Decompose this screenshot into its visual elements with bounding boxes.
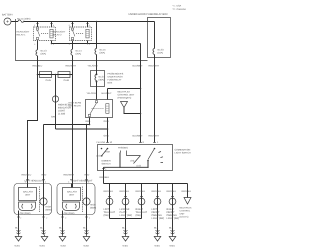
svg-text:LICENSE: LICENSE: [120, 208, 130, 211]
svg-text:RED/BLK: RED/BLK: [120, 190, 130, 193]
svg-text:2: 2: [89, 217, 90, 220]
svg-text:FRONT: FRONT: [152, 211, 161, 214]
svg-text:No.13: No.13: [41, 50, 48, 53]
svg-text:(Driver's): (Driver's): [180, 216, 189, 219]
svg-text:COMBINATION: COMBINATION: [175, 149, 191, 152]
svg-text:HIGH: HIGH: [46, 206, 52, 209]
svg-text:MULTIPLEX: MULTIPLEX: [180, 207, 193, 210]
svg-text:PASSING: PASSING: [118, 147, 128, 150]
svg-text:LIGHT (5W): LIGHT (5W): [152, 217, 165, 220]
svg-text:RED/BLU: RED/BLU: [33, 65, 43, 68]
svg-text:RED/BLK: RED/BLK: [136, 190, 146, 193]
svg-text:PASSENGER'S: PASSENGER'S: [108, 73, 124, 76]
svg-text:2: 2: [88, 181, 89, 184]
svg-text:BLK: BLK: [83, 227, 88, 230]
svg-text:*1 : USA: *1 : USA: [173, 5, 182, 8]
svg-text:(HI): (HI): [131, 160, 135, 163]
svg-text:PARKING: PARKING: [167, 214, 177, 217]
svg-text:RELAY 1: RELAY 1: [17, 34, 27, 37]
svg-text:C445: C445: [46, 79, 52, 82]
svg-text:No.15: No.15: [100, 49, 107, 52]
svg-text:(LOW): (LOW): [97, 155, 104, 158]
svg-text:RED/BLK: RED/BLK: [167, 190, 177, 193]
svg-text:SWITCH: SWITCH: [102, 163, 111, 166]
svg-text:C446: C446: [64, 79, 70, 82]
svg-text:BLK: BLK: [122, 227, 127, 230]
svg-text:3: 3: [89, 24, 90, 27]
svg-text:BATTERY: BATTERY: [2, 14, 13, 17]
svg-text:5: 5: [69, 24, 70, 27]
svg-text:RED: RED: [86, 120, 91, 123]
svg-text:LEFT: LEFT: [104, 208, 110, 211]
svg-text:UNDER-DASH: UNDER-DASH: [108, 76, 123, 79]
svg-text:BLU/WHT: BLU/WHT: [133, 135, 144, 138]
svg-text:BLK: BLK: [169, 227, 174, 230]
svg-text:MULTIPLEX: MULTIPLEX: [118, 91, 131, 94]
svg-text:(Passenger's): (Passenger's): [118, 97, 132, 100]
svg-text:LOW (35W): LOW (35W): [63, 212, 75, 215]
svg-text:RIGHT: RIGHT: [136, 208, 144, 211]
svg-text:UNDER-HOOD FUSE/RELAY BOX: UNDER-HOOD FUSE/RELAY BOX: [129, 13, 169, 16]
svg-text:No.33: No.33: [158, 49, 165, 52]
svg-text:1: 1: [53, 43, 54, 46]
svg-text:RED: RED: [85, 174, 90, 177]
svg-text:(20A): (20A): [76, 53, 82, 56]
svg-text:BLK: BLK: [15, 227, 20, 230]
svg-text:RED/BLK: RED/BLK: [100, 176, 110, 179]
svg-text:UNIT: UNIT: [180, 213, 186, 216]
svg-text:BLK: BLK: [59, 227, 64, 230]
svg-text:BOX: BOX: [108, 82, 113, 85]
svg-text:RIGHT HEADLIGHT: RIGHT HEADLIGHT: [72, 180, 93, 183]
svg-text:5: 5: [34, 24, 35, 27]
svg-text:LIGHT (5W): LIGHT (5W): [167, 217, 180, 220]
svg-text:1: 1: [89, 43, 90, 46]
svg-text:2: 2: [45, 181, 46, 184]
svg-text:2: 2: [20, 217, 21, 220]
svg-text:HIGH: HIGH: [105, 151, 111, 154]
svg-text:(60W): (60W): [46, 209, 52, 212]
svg-text:FRONT: FRONT: [167, 211, 176, 214]
svg-text:For USA: For USA: [97, 141, 106, 144]
svg-text:No.14: No.14: [76, 50, 83, 53]
svg-text:GRN: GRN: [104, 120, 109, 123]
svg-text:(10A): (10A): [158, 52, 164, 55]
svg-text:LIGHT (5W): LIGHT (5W): [120, 214, 133, 217]
svg-text:CONTROL UNIT: CONTROL UNIT: [118, 94, 135, 97]
svg-text:(5W): (5W): [136, 214, 141, 217]
svg-text:GRN: GRN: [104, 135, 109, 138]
svg-text:(30A): (30A): [99, 79, 105, 82]
svg-text:RED/BLU: RED/BLU: [22, 174, 32, 177]
svg-text:(60W): (60W): [90, 207, 96, 210]
svg-text:TAILLIGHT: TAILLIGHT: [104, 211, 116, 214]
svg-text:LIGHT SWITCH: LIGHT SWITCH: [175, 152, 191, 155]
svg-text:2: 2: [46, 217, 47, 220]
svg-text:RED/WHT: RED/WHT: [149, 135, 160, 138]
svg-text:LEFT: LEFT: [152, 208, 158, 211]
svg-text:BALLAST: BALLAST: [23, 191, 34, 194]
svg-text:TAILLIGHT: TAILLIGHT: [136, 211, 148, 214]
svg-text:3: 3: [53, 24, 54, 27]
svg-text:RED/BLK: RED/BLK: [182, 190, 192, 193]
svg-text:CONTROL: CONTROL: [180, 210, 191, 213]
svg-text:DIMMER: DIMMER: [102, 160, 111, 163]
svg-text:(20A): (20A): [41, 53, 47, 56]
svg-text:BALLAST: BALLAST: [67, 191, 78, 194]
svg-text:BLU/WHT: BLU/WHT: [133, 65, 144, 68]
svg-text:PARKING: PARKING: [152, 214, 162, 217]
svg-text:2: 2: [65, 217, 66, 220]
svg-text:RELAY 2: RELAY 2: [53, 34, 63, 37]
svg-text:PLATE: PLATE: [120, 211, 128, 214]
svg-text:RED/WHT: RED/WHT: [66, 65, 77, 68]
svg-text:(5W): (5W): [104, 214, 109, 217]
svg-text:No.24: No.24: [99, 76, 106, 79]
svg-text:RED/WHT: RED/WHT: [149, 65, 160, 68]
svg-text:UNIT: UNIT: [69, 194, 75, 197]
svg-text:4: 4: [68, 181, 69, 184]
svg-text:RED/WHT: RED/WHT: [64, 174, 75, 177]
svg-text:RIGHT: RIGHT: [167, 208, 175, 211]
svg-text:GRN: GRN: [51, 116, 56, 119]
svg-text:BLK: BLK: [154, 227, 159, 230]
svg-text:(20A): (20A): [100, 52, 106, 55]
svg-text:FUSE/RELAY: FUSE/RELAY: [108, 79, 122, 82]
svg-text:4: 4: [25, 181, 26, 184]
svg-text:5: 5: [105, 168, 106, 171]
svg-text:YEL/GRN: YEL/GRN: [88, 65, 98, 68]
svg-text:HEADLIGHT: HEADLIGHT: [53, 31, 67, 34]
svg-text:No.41 (100A): No.41 (100A): [17, 18, 31, 21]
svg-text:LOW (35W): LOW (35W): [19, 212, 31, 215]
svg-text:2: 2: [34, 43, 35, 46]
svg-text:BLU/WHT: BLU/WHT: [102, 92, 113, 95]
svg-text:YEL/GRN: YEL/GRN: [87, 92, 97, 95]
svg-text:2: 2: [69, 43, 70, 46]
svg-text:*2 : CANADA: *2 : CANADA: [173, 8, 187, 11]
svg-text:RED/BLK: RED/BLK: [104, 190, 114, 193]
svg-text:RED/BLK: RED/BLK: [152, 190, 162, 193]
svg-text:HEADLIGHT: HEADLIGHT: [17, 31, 31, 34]
svg-text:BLK: BLK: [40, 227, 45, 230]
svg-text:RED: RED: [42, 174, 47, 177]
svg-text:HIGH: HIGH: [90, 204, 96, 207]
svg-text:(1.4W): (1.4W): [58, 113, 65, 116]
svg-text:UNIT: UNIT: [25, 194, 31, 197]
